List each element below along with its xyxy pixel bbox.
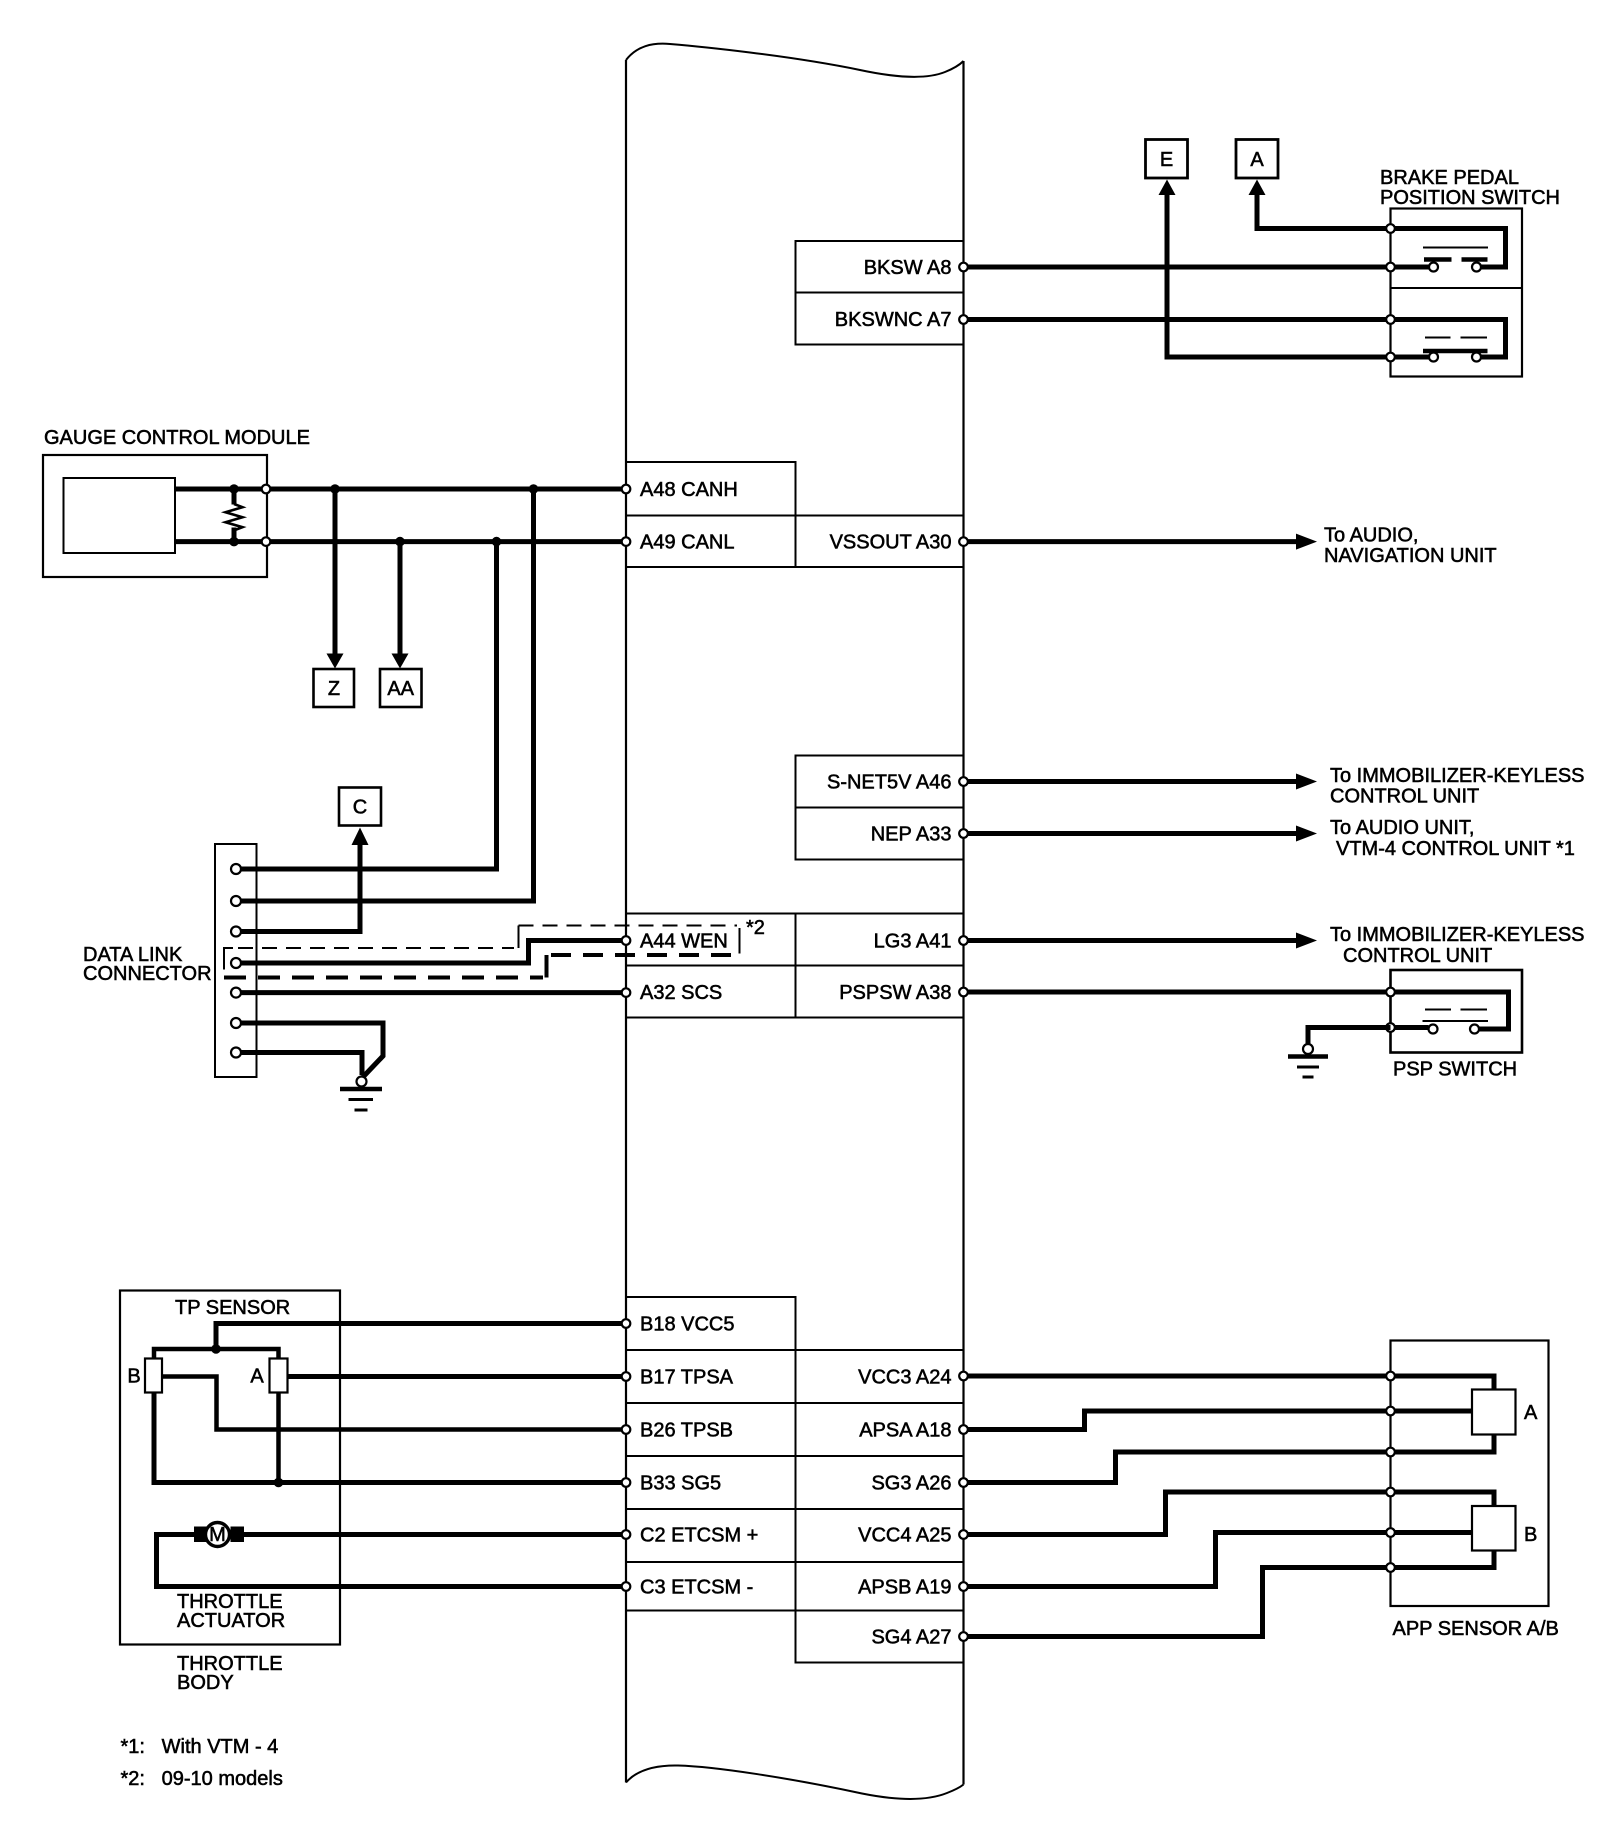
wire B18 VCC5 bbox=[216, 1324, 622, 1350]
ECM/PCM connector body right edge bbox=[962, 61, 964, 1785]
svg-text:To AUDIO,: To AUDIO, bbox=[1324, 525, 1418, 547]
DLC pin 4 bbox=[231, 958, 241, 968]
pin box C2 ETCSM + bbox=[626, 1509, 796, 1562]
wire CANH from gauge module to A48 bbox=[175, 487, 622, 492]
gauge control module inner unit box bbox=[64, 478, 176, 553]
wire C3 ETCSM - bbox=[157, 1535, 622, 1587]
wire brake switch to connector A bbox=[1257, 195, 1391, 229]
pin box APSA A18 bbox=[796, 1403, 964, 1456]
terminal BKSW bbox=[959, 263, 968, 272]
wire DLC pin 7 to ground bbox=[242, 1053, 363, 1076]
wire CANL down to DLC pin 1 bbox=[242, 542, 497, 869]
ECM/PCM connector body bottom torn edge bbox=[626, 1765, 964, 1798]
pin box B17 TPSA bbox=[626, 1350, 796, 1403]
svg-text:C3 ETCSM -: C3 ETCSM - bbox=[640, 1577, 753, 1599]
svg-text:To IMMOBILIZER-KEYLESS: To IMMOBILIZER-KEYLESS bbox=[1330, 765, 1585, 787]
brake switch 1 blade bbox=[1423, 247, 1488, 249]
svg-text:VSSOUT A30: VSSOUT A30 bbox=[830, 532, 952, 554]
ECM/PCM connector body left edge bbox=[625, 60, 627, 1783]
terminal S-NET5V bbox=[959, 777, 968, 786]
wire drop from CANL to connector AA bbox=[398, 542, 403, 654]
throttle actuator motor M bbox=[194, 1527, 207, 1543]
svg-text:B33 SG5: B33 SG5 bbox=[640, 1473, 721, 1495]
DLC pin 1 bbox=[231, 864, 241, 874]
wire DLC pin 5 to A32 SCS bbox=[242, 990, 622, 995]
svg-text:APSA A18: APSA A18 bbox=[859, 1420, 951, 1442]
pin box A32 SCS bbox=[626, 966, 796, 1018]
svg-text:VCC3 A24: VCC3 A24 bbox=[858, 1367, 951, 1389]
APP sensor element B bbox=[1472, 1506, 1516, 1551]
TP sensor element A ground lead bbox=[276, 1393, 281, 1483]
TP sensor element B bbox=[145, 1359, 162, 1393]
svg-text:To IMMOBILIZER-KEYLESS: To IMMOBILIZER-KEYLESS bbox=[1330, 924, 1585, 946]
svg-text:A: A bbox=[250, 1366, 264, 1388]
junction dot rail bbox=[211, 1344, 221, 1354]
wire DLC pin 3 to connector C bbox=[242, 845, 361, 932]
terminal SG4 bbox=[959, 1632, 968, 1641]
terminal APSB bbox=[959, 1582, 968, 1591]
svg-text:*1: With VTM - 4: *1: With VTM - 4 bbox=[121, 1736, 279, 1758]
svg-text:BRAKE PEDAL: BRAKE PEDAL bbox=[1380, 167, 1519, 189]
terminal VSSOUT bbox=[959, 537, 968, 546]
brake switch 2 contacts bbox=[1429, 353, 1438, 362]
resistor termination in gauge module bbox=[232, 489, 237, 505]
pin box VSSOUT A30 bbox=[796, 516, 964, 568]
svg-text:A48 CANH: A48 CANH bbox=[640, 479, 738, 501]
svg-text:AA: AA bbox=[387, 678, 414, 700]
svg-text:To AUDIO UNIT,: To AUDIO UNIT, bbox=[1330, 817, 1474, 839]
svg-text:B26 TPSB: B26 TPSB bbox=[640, 1420, 733, 1442]
svg-text:S-NET5V A46: S-NET5V A46 bbox=[827, 772, 952, 794]
svg-text:PSP SWITCH: PSP SWITCH bbox=[1393, 1059, 1517, 1081]
throttle body box bbox=[120, 1291, 340, 1645]
dashed wire 09-10 models upper bbox=[224, 948, 233, 970]
pin box B18 VCC5 bbox=[626, 1297, 796, 1350]
wire CANH down to DLC pin 2 bbox=[242, 489, 534, 901]
svg-text:BODY: BODY bbox=[177, 1672, 234, 1694]
gauge module terminal CANL bbox=[262, 537, 271, 546]
svg-text:A: A bbox=[1524, 1402, 1538, 1424]
PSP switch internal wiring bbox=[1391, 992, 1509, 1029]
wire brake switch to connector E bbox=[1167, 195, 1391, 358]
wire VSSOUT A30 to audio navigation unit bbox=[964, 539, 1297, 544]
terminal A44 bbox=[622, 936, 631, 945]
svg-text:BKSW A8: BKSW A8 bbox=[864, 257, 952, 279]
arrowhead into C bbox=[352, 828, 369, 846]
ground G102 bbox=[1303, 1044, 1313, 1054]
wire DLC pin 4 to A44 WEN bbox=[242, 941, 622, 964]
wire C2 ETCSM + bbox=[244, 1532, 622, 1537]
svg-text:TP SENSOR: TP SENSOR bbox=[175, 1297, 290, 1319]
pin box LG3 A41 bbox=[796, 914, 964, 966]
svg-text:M: M bbox=[209, 1524, 226, 1546]
pin box B33 SG5 bbox=[626, 1456, 796, 1509]
junction dot resistor top bbox=[229, 484, 239, 494]
terminal SG3 bbox=[959, 1478, 968, 1487]
wire VCC3 A24 to APP sensor bbox=[964, 1374, 1391, 1379]
connector box AA bbox=[380, 669, 422, 707]
svg-text:*2: 09-10 models: *2: 09-10 models bbox=[121, 1768, 283, 1790]
APP sensor B internal wiring bbox=[1391, 1492, 1495, 1506]
arrowhead into E bbox=[1159, 180, 1176, 196]
brake switch 2 internal wiring bbox=[1391, 320, 1506, 358]
wire NEP A33 to audio unit VTM-4 control unit bbox=[964, 831, 1297, 836]
svg-text:APP SENSOR A/B: APP SENSOR A/B bbox=[1393, 1618, 1559, 1640]
terminal APSA bbox=[959, 1425, 968, 1434]
dashed wire 09-10 models lower bbox=[224, 976, 543, 980]
connector box C bbox=[339, 788, 381, 826]
pin box C3 ETCSM - bbox=[626, 1562, 796, 1611]
svg-text:CONTROL UNIT: CONTROL UNIT bbox=[1343, 945, 1492, 967]
wire BKSWNC A7 to brake pedal switch bbox=[964, 317, 1391, 322]
PSP switch contacts bbox=[1429, 1025, 1438, 1034]
wire B26 TPSB bbox=[162, 1377, 622, 1430]
pin box SG4 A27 bbox=[796, 1611, 964, 1663]
brake pedal position switch box bbox=[1391, 209, 1523, 377]
svg-text:POSITION SWITCH: POSITION SWITCH bbox=[1380, 187, 1560, 209]
PSP switch terminals bbox=[1386, 988, 1395, 997]
data link connector box bbox=[215, 844, 257, 1077]
pin box BKSW A8 bbox=[796, 241, 964, 293]
svg-text:ACTUATOR: ACTUATOR bbox=[177, 1610, 285, 1632]
terminal A32 bbox=[622, 988, 631, 997]
junction dot SG5 bbox=[274, 1478, 284, 1488]
connector box E bbox=[1146, 140, 1188, 179]
terminal B26 bbox=[622, 1425, 631, 1434]
ground G101 bbox=[357, 1077, 367, 1087]
arrowhead into AA bbox=[392, 654, 409, 669]
brake switch 2 terminals bbox=[1386, 315, 1395, 324]
junction dot CANL-DLC bbox=[492, 537, 502, 547]
terminal C2 bbox=[622, 1530, 631, 1539]
gauge module terminal CANH bbox=[262, 485, 271, 494]
wire S-NET5V A46 to immobilizer-keyless control unit bbox=[964, 779, 1297, 784]
svg-text:B17 TPSA: B17 TPSA bbox=[640, 1367, 734, 1389]
pin box S-NET5V A46 bbox=[796, 756, 964, 808]
junction dot CANH-Z bbox=[330, 484, 340, 494]
svg-text:C: C bbox=[353, 797, 367, 819]
pin box BKSWNC A7 bbox=[796, 293, 964, 345]
svg-text:APSB A19: APSB A19 bbox=[858, 1577, 951, 1599]
svg-text:SG3 A26: SG3 A26 bbox=[871, 1473, 951, 1495]
svg-text:BKSWNC A7: BKSWNC A7 bbox=[835, 309, 952, 331]
wire SG3 A26 to APP sensor bbox=[964, 1452, 1391, 1483]
wire LG3 A41 to immobilizer-keyless control unit bbox=[964, 938, 1297, 943]
svg-text:SG4 A27: SG4 A27 bbox=[871, 1627, 951, 1649]
DLC pin 3 bbox=[231, 927, 241, 937]
brake switch 1 terminals bbox=[1386, 224, 1395, 233]
pin box VCC4 A25 bbox=[796, 1509, 964, 1562]
TP sensor element A bbox=[270, 1359, 288, 1393]
wire PSP switch to ground bbox=[1308, 1028, 1391, 1045]
DLC pin 5 bbox=[231, 988, 241, 998]
DLC pin 7 bbox=[231, 1048, 241, 1058]
brake switch 2 blade bbox=[1425, 337, 1487, 339]
svg-text:VTM-4 CONTROL UNIT *1: VTM-4 CONTROL UNIT *1 bbox=[1336, 838, 1575, 860]
svg-text:A: A bbox=[1250, 149, 1264, 171]
junction dot resistor bottom bbox=[229, 537, 239, 547]
svg-text:C2 ETCSM +: C2 ETCSM + bbox=[640, 1525, 758, 1547]
wire B17 TPSA bbox=[288, 1374, 622, 1379]
APP sensor terminals bbox=[1386, 1372, 1395, 1381]
svg-text:*2: *2 bbox=[746, 917, 765, 939]
terminal BKSWNC bbox=[959, 315, 968, 324]
terminal VCC4 bbox=[959, 1530, 968, 1539]
svg-text:GAUGE CONTROL MODULE: GAUGE CONTROL MODULE bbox=[44, 427, 310, 449]
pin box VCC3 A24 bbox=[796, 1350, 964, 1403]
pin box A48 CANH bbox=[626, 462, 796, 516]
wire CANL from gauge module to A49 bbox=[175, 539, 622, 544]
DLC pin 2 bbox=[231, 896, 241, 906]
pin box NEP A33 bbox=[796, 808, 964, 860]
terminal A48 bbox=[622, 485, 631, 494]
pin box A44 WEN bbox=[626, 914, 796, 966]
brake switch 1 internal wiring bbox=[1391, 229, 1506, 268]
svg-text:NEP A33: NEP A33 bbox=[871, 824, 952, 846]
svg-text:B: B bbox=[127, 1366, 140, 1388]
APP sensor box bbox=[1391, 1341, 1549, 1607]
svg-text:CONNECTOR: CONNECTOR bbox=[83, 963, 212, 985]
terminal PSPSW bbox=[959, 988, 968, 997]
terminal NEP bbox=[959, 829, 968, 838]
gauge control module box bbox=[43, 455, 267, 577]
terminal B17 bbox=[622, 1372, 631, 1381]
pin box A49 CANL bbox=[626, 516, 796, 568]
connector box A bbox=[1236, 140, 1278, 179]
svg-text:A32 SCS: A32 SCS bbox=[640, 982, 722, 1004]
arrowhead into Z bbox=[327, 654, 344, 669]
terminal VCC3 bbox=[959, 1372, 968, 1381]
wire SG4 A27 to APP sensor bbox=[964, 1568, 1391, 1637]
svg-text:E: E bbox=[1160, 149, 1173, 171]
terminal LG3 bbox=[959, 936, 968, 945]
pin box SG3 A26 bbox=[796, 1456, 964, 1509]
wire B33 SG5 bbox=[154, 1393, 622, 1483]
ECM/PCM connector body top torn edge bbox=[626, 44, 964, 77]
terminal B33 bbox=[622, 1478, 631, 1487]
svg-text:PSPSW A38: PSPSW A38 bbox=[839, 982, 951, 1004]
terminal A49 bbox=[622, 537, 631, 546]
svg-text:LG3 A41: LG3 A41 bbox=[874, 931, 952, 953]
pin box B26 TPSB bbox=[626, 1403, 796, 1456]
svg-text:A44 WEN: A44 WEN bbox=[640, 931, 728, 953]
wire PSPSW A38 to PSP switch bbox=[964, 990, 1391, 995]
wire APSA A18 to APP sensor bbox=[964, 1411, 1391, 1430]
svg-text:A49 CANL: A49 CANL bbox=[640, 532, 735, 554]
svg-text:NAVIGATION UNIT: NAVIGATION UNIT bbox=[1324, 545, 1497, 567]
pin box APSB A19 bbox=[796, 1562, 964, 1611]
APP sensor element A bbox=[1472, 1390, 1516, 1435]
wire APSB A19 to APP sensor bbox=[964, 1533, 1391, 1587]
wire BKSW A8 to brake pedal switch bbox=[964, 265, 1391, 270]
arrowhead into A bbox=[1249, 180, 1266, 196]
svg-text:Z: Z bbox=[328, 678, 340, 700]
wire drop from CANH to connector Z bbox=[333, 489, 338, 654]
APP sensor A internal wiring bbox=[1391, 1376, 1495, 1390]
svg-text:B: B bbox=[1524, 1524, 1537, 1546]
DLC pin 6 bbox=[231, 1018, 241, 1028]
terminal B18 bbox=[622, 1319, 631, 1328]
junction dot CANL-AA bbox=[395, 537, 405, 547]
junction dot CANH-DLC bbox=[529, 484, 539, 494]
svg-text:VCC4 A25: VCC4 A25 bbox=[858, 1525, 951, 1547]
terminal C3 bbox=[622, 1582, 631, 1591]
svg-text:CONTROL UNIT: CONTROL UNIT bbox=[1330, 786, 1479, 808]
wire DLC pin 6 to ground bbox=[242, 1023, 384, 1077]
brake switch 1 contacts bbox=[1429, 263, 1438, 272]
TP sensor supply rail bbox=[154, 1349, 279, 1359]
PSP switch box bbox=[1391, 970, 1523, 1053]
svg-text:B18 VCC5: B18 VCC5 bbox=[640, 1314, 735, 1336]
wire VCC4 A25 to APP sensor bbox=[964, 1492, 1391, 1535]
PSP switch blade bbox=[1425, 1009, 1487, 1011]
pin box PSPSW A38 bbox=[796, 966, 964, 1018]
connector box Z bbox=[314, 669, 355, 707]
